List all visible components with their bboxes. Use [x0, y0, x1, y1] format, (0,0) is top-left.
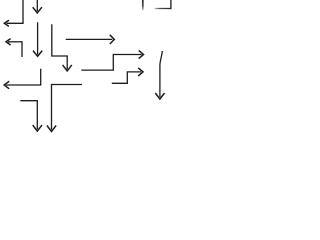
wire K: [160, 51, 162, 97]
wire D: [52, 24, 67, 69]
arrow B2 (long vertical, head down): [33, 22, 42, 56]
arrowhead B2 down: [33, 51, 42, 57]
arrow C (elbow, up then left, head left): [6, 39, 23, 57]
wire B2: [37, 22, 39, 54]
wire E2 horizontal: [155, 8, 171, 10]
arrowhead A left: [4, 20, 9, 26]
wire C vertical: [21, 42, 23, 57]
wire L: [20, 101, 37, 130]
arrow F (elbow: down then left, head left): [4, 69, 41, 89]
arrow N (zigzag: right, up, right, head right): [112, 68, 143, 84]
wire C horizontal: [8, 41, 23, 43]
arrowhead F left: [4, 81, 9, 89]
wire H: [81, 55, 141, 71]
arrow H (zigzag: right, up, right, head right): [81, 50, 143, 70]
arrowhead D down: [63, 65, 72, 71]
stub E1 (clipped vertical, fading): [142, 0, 144, 10]
arrowhead L down: [33, 125, 42, 131]
wire A vertical: [22, 0, 24, 23]
wire N: [112, 72, 141, 83]
arrowhead C left: [6, 39, 11, 45]
arrowhead K down: [155, 93, 164, 99]
arrow M (elbow: left then long down, head down): [47, 85, 82, 132]
wire E1: [142, 0, 144, 10]
arrow G (horizontal, head right): [66, 35, 115, 44]
wire M: [52, 85, 83, 130]
wire F: [6, 69, 41, 85]
arrow B (short vertical, head down): [33, 0, 42, 13]
wire A horizontal: [7, 22, 24, 24]
arrowhead M down: [47, 126, 56, 132]
arrow K (slight curve then long vertical, head down): [155, 51, 164, 99]
arrowhead H right: [139, 50, 144, 58]
arrow D (zigzag: down, right, down, head down): [52, 24, 72, 71]
wire E2 vertical: [170, 0, 172, 9]
arrowhead G right: [110, 35, 115, 44]
wire B: [36, 0, 38, 11]
arrowhead N right: [138, 68, 143, 76]
stub E2 (clipped elbow top right): [155, 0, 171, 9]
wire G: [66, 38, 113, 40]
arrow L (elbow: right then down, head down): [20, 101, 42, 131]
arrowhead B down: [33, 7, 42, 13]
arrow A (elbow, down then left, head left): [4, 0, 23, 26]
